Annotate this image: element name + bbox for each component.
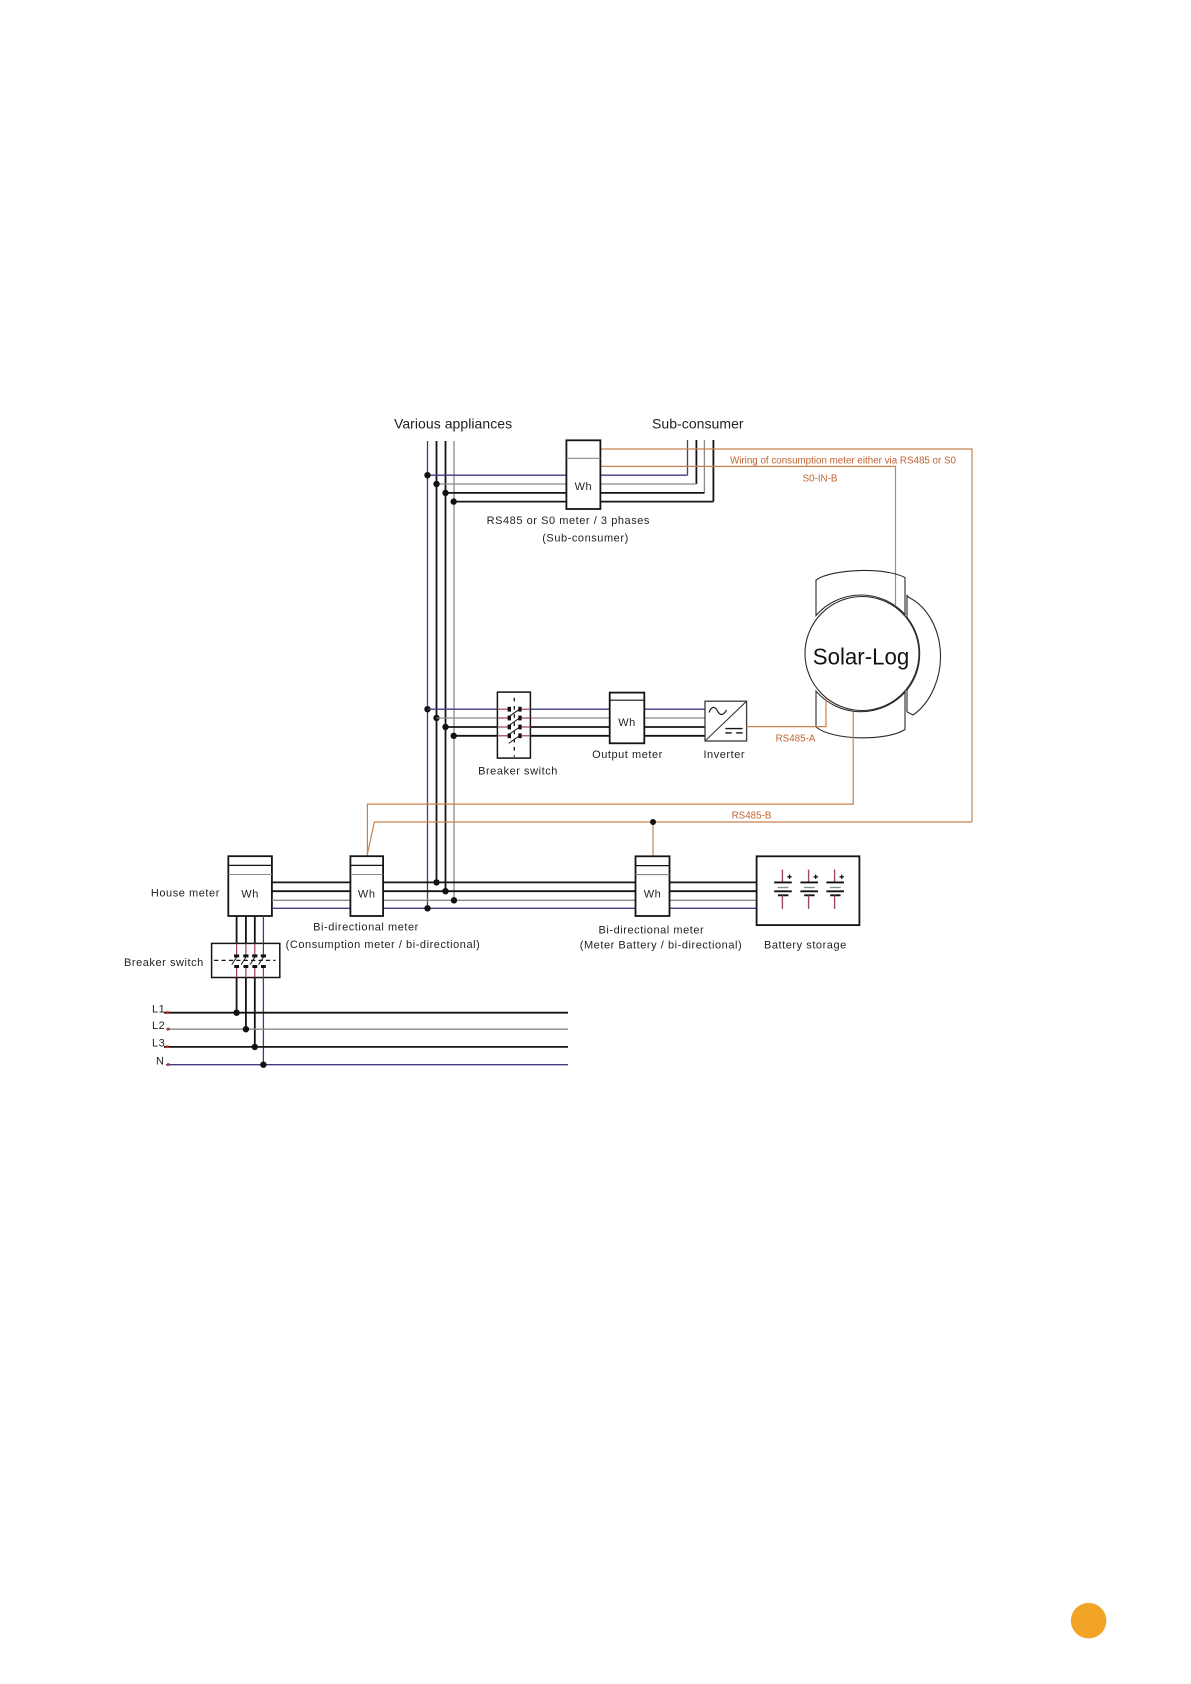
wire left bus vertical L2 (black)	[445, 441, 447, 891]
wire top row gray right	[600, 483, 696, 485]
wire drop N breaker-to-rail	[262, 978, 264, 1065]
node dot L2	[243, 1026, 249, 1032]
battery storage box	[757, 856, 860, 925]
wire right bus vertical 4 (black)	[712, 440, 714, 502]
svg-text:L1: L1	[152, 1004, 165, 1016]
svg-text:L3: L3	[152, 1038, 165, 1050]
wire mid row black1	[446, 726, 498, 728]
battery cell at 808.6	[808, 870, 810, 883]
svg-text:Wh: Wh	[358, 889, 376, 901]
wire bottom L2 bidir-to-batmeter	[383, 890, 635, 892]
svg-text:Bi-directional meter: Bi-directional meter	[599, 924, 705, 936]
inverter U1	[705, 701, 747, 741]
logo bottom band	[816, 691, 905, 738]
wire bottom L1 batmeter-to-storage	[670, 881, 757, 883]
svg-text:RS485 or S0 meter / 3 phases: RS485 or S0 meter / 3 phases	[487, 515, 650, 527]
node dot RS485-B	[650, 819, 656, 825]
wire right bus vertical 1 (navy)	[687, 440, 689, 475]
node dot mid bus 1	[424, 706, 430, 712]
wire orange RS485 route (meter to Solar-Log top)	[600, 466, 895, 605]
wire left bus vertical L1 (black)	[436, 441, 438, 882]
battery cells	[774, 870, 844, 909]
wire bottom N bidir-to-batmeter	[383, 907, 635, 909]
svg-text:RS485-B: RS485-B	[732, 811, 772, 822]
svg-text:Wiring of consumption meter ei: Wiring of consumption meter either via R…	[730, 456, 957, 467]
wire right bus vertical 2 (black)	[695, 440, 697, 484]
wire left bus vertical L3 (gray)	[453, 441, 455, 900]
wire mid row black1 breaker-to-meter	[530, 726, 609, 728]
wire top row black2 right	[600, 501, 713, 503]
node dot bottom bus 1	[433, 879, 439, 885]
node dot mid bus 2	[433, 715, 439, 721]
svg-text:Bi-directional meter: Bi-directional meter	[313, 922, 419, 934]
svg-text:Battery storage: Battery storage	[764, 940, 847, 952]
node dot L1	[233, 1010, 239, 1016]
wire mid row black2 meter-to-inverter	[644, 735, 705, 737]
house meter box	[228, 856, 272, 916]
bi-directional meter 1 box	[350, 856, 383, 916]
wire top row black2 left	[454, 501, 567, 503]
wire mid row black2	[454, 735, 498, 737]
wire drop L3 housemeter-to-breaker	[254, 916, 256, 943]
wire top row navy left	[428, 474, 567, 476]
breaker switch (middle)	[497, 692, 530, 758]
wire top row navy right	[600, 474, 687, 476]
wire top row gray left	[437, 483, 567, 485]
svg-text:Breaker switch: Breaker switch	[478, 766, 558, 778]
svg-text:Sub-consumer: Sub-consumer	[652, 416, 744, 432]
battery cell at 782.4	[781, 870, 783, 883]
svg-text:Wh: Wh	[618, 717, 636, 729]
node dot mid bus 4	[451, 733, 457, 739]
node dot mid bus 3	[442, 724, 448, 730]
wire bottom L1 bidir-to-batmeter	[383, 881, 635, 883]
rail L3	[164, 1046, 568, 1048]
rail L1	[164, 1012, 568, 1014]
svg-text:House meter: House meter	[151, 888, 220, 900]
wire drop L3 breaker-to-rail	[254, 978, 256, 1047]
wire top row black1 right	[600, 492, 704, 494]
svg-text:L2: L2	[152, 1020, 165, 1032]
wire bottom N housemeter-to-bidir	[272, 907, 351, 909]
meter sub-consumer box	[566, 440, 600, 509]
svg-text:S0-IN-B: S0-IN-B	[803, 474, 838, 485]
logo right band	[907, 596, 941, 716]
breaker switch (lower)	[212, 943, 280, 977]
rail N	[166, 1064, 568, 1066]
svg-text:Wh: Wh	[575, 481, 593, 493]
wire left bus vertical N (navy)	[427, 441, 429, 908]
bi-directional meter 2 box	[636, 856, 670, 916]
wire mid row navy breaker-to-meter	[530, 708, 609, 710]
wire mid row black2 breaker-to-meter	[530, 735, 609, 737]
footer orange dot	[1071, 1603, 1107, 1639]
wire drop L1 housemeter-to-breaker	[236, 916, 238, 943]
wire bottom L3 batmeter-to-storage	[670, 899, 757, 901]
wire top row black1 left	[446, 492, 567, 494]
logo top band	[816, 570, 905, 615]
wire mid row gray meter-to-inverter	[644, 717, 705, 719]
wire drop L1 breaker-to-rail	[236, 978, 238, 1013]
wire bottom L2 batmeter-to-storage	[670, 890, 757, 892]
output meter box	[610, 693, 645, 744]
node dot N	[260, 1062, 266, 1068]
wire mid row navy meter-to-inverter	[644, 708, 705, 710]
wire mid row gray	[437, 717, 498, 719]
wire mid row gray breaker-to-meter	[530, 717, 609, 719]
svg-text:Solar-Log: Solar-Log	[813, 644, 910, 670]
svg-text:Breaker switch: Breaker switch	[124, 957, 204, 969]
wire mid row black1 meter-to-inverter	[644, 726, 705, 728]
svg-text:Output meter: Output meter	[592, 749, 663, 761]
node dot top bus 3	[442, 490, 448, 496]
node dot top bus 1	[424, 472, 430, 478]
wire orange lower rail2 with diagonal	[367, 822, 971, 856]
wire bottom L1 housemeter-to-bidir	[272, 881, 351, 883]
wire bottom L3 housemeter-to-bidir	[272, 899, 351, 901]
svg-text:(Sub-consumer): (Sub-consumer)	[542, 533, 629, 545]
wire orange RS485-A inverter to logo	[747, 698, 826, 727]
node dot bottom bus 4	[424, 905, 430, 911]
svg-text:RS485-A: RS485-A	[776, 734, 816, 745]
node dot top bus 2	[433, 481, 439, 487]
wire right bus vertical 3 (gray)	[703, 440, 705, 493]
wire mid row navy	[428, 708, 498, 710]
wire bottom L2 housemeter-to-bidir	[272, 890, 351, 892]
rail L2	[166, 1028, 568, 1030]
node dot bottom bus 3	[451, 897, 457, 903]
Solar-Log logo	[805, 570, 941, 737]
svg-text:Wh: Wh	[241, 889, 259, 901]
battery cell at 834.6	[834, 870, 836, 883]
node dot L3	[252, 1044, 258, 1050]
wire drop N housemeter-to-breaker	[262, 916, 264, 943]
wire drop L2 housemeter-to-breaker	[245, 916, 247, 943]
svg-text:(Meter Battery / bi-directiona: (Meter Battery / bi-directional)	[580, 940, 742, 952]
wire orange battery-meter drop	[652, 822, 654, 856]
svg-text:Wh: Wh	[644, 889, 662, 901]
wire drop L2 breaker-to-rail	[245, 978, 247, 1030]
wire orange S0 route (meter to far right, down to RS485-B rail)	[600, 449, 972, 822]
wire bottom N batmeter-to-storage	[670, 907, 757, 909]
wire orange RS485-B rail (logo bottom to consumption meter)	[367, 712, 853, 856]
logo inner circle	[805, 597, 919, 711]
svg-text:N: N	[156, 1055, 165, 1067]
svg-text:Inverter: Inverter	[703, 749, 745, 761]
wire bottom L3 bidir-to-batmeter	[383, 899, 635, 901]
svg-text:(Consumption meter / bi-direct: (Consumption meter / bi-directional)	[286, 939, 481, 951]
node dot bottom bus 2	[442, 888, 448, 894]
svg-text:Various appliances: Various appliances	[394, 416, 512, 432]
node dot top bus 4	[451, 498, 457, 504]
